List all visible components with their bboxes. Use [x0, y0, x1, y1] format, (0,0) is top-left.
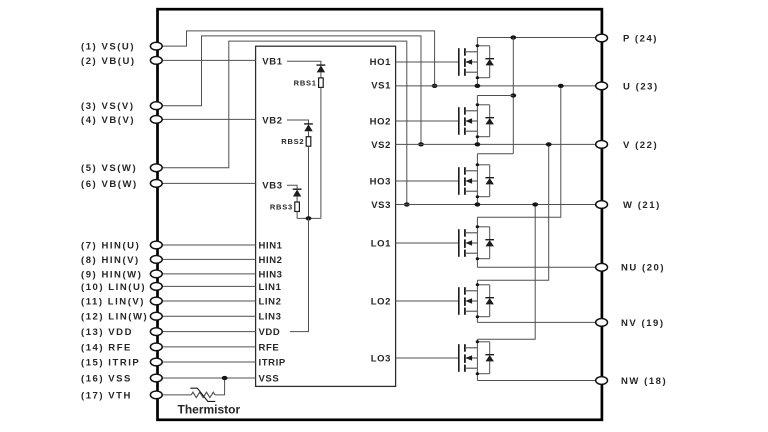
svg-text:(11) LIN(V): (11) LIN(V) — [81, 296, 145, 307]
pin 15 ITRIP (terminal ellipse + label) — [81, 357, 162, 368]
wire U1 VB1 stub to bootstrap diode DBS1 — [287, 61, 321, 65]
wire U1 HO1 to Q1 gate — [396, 61, 459, 63]
pin 2 VB(U) (terminal ellipse + label) — [81, 56, 162, 67]
body diode D6 of Q6 — [477, 342, 494, 374]
svg-text:(9) HIN(W): (9) HIN(W) — [81, 269, 142, 280]
wire RBS2 to bootstrap supply node — [308, 146, 310, 218]
svg-text:(7) HIN(U): (7) HIN(U) — [81, 240, 140, 251]
svg-text:RBS3: RBS3 — [270, 203, 293, 212]
body diode D1 of Q1 — [477, 46, 494, 78]
svg-text:VB2: VB2 — [262, 115, 282, 126]
wire pin 4 VB(V) to U1 — [162, 118, 255, 120]
pin U (23) (terminal ellipse + label) — [596, 81, 659, 92]
wire Q5 drain link to V net — [477, 144, 548, 280]
wire bootstrap supply bus — [297, 217, 321, 219]
wire pin 12 LIN(W) to U1 — [162, 315, 255, 317]
svg-text:Thermistor: Thermistor — [178, 402, 241, 416]
junction Q6 drain on W net — [532, 202, 538, 206]
svg-text:VB1: VB1 — [262, 57, 282, 68]
wire pin 2 VB(U) to U1 — [162, 59, 255, 61]
svg-text:LIN1: LIN1 — [259, 282, 282, 293]
junction D2 anode tap — [476, 135, 479, 138]
wire Q3 drain-source spine (P rail to W net) — [476, 154, 478, 205]
pin 16 VSS (terminal ellipse + label) — [81, 373, 162, 384]
wire RBS3 to bootstrap supply node — [296, 212, 298, 219]
svg-text:(2) VB(U): (2) VB(U) — [81, 56, 136, 67]
transistor Q6 (N-MOSFET) — [459, 344, 478, 372]
wire V net (U1 VS2 to pin V 22) — [396, 143, 602, 145]
svg-text:RFE: RFE — [259, 342, 280, 353]
svg-text:HO2: HO2 — [370, 116, 391, 127]
wire pin 13 VDD to U1 — [162, 331, 255, 333]
svg-text:(13) VDD: (13) VDD — [81, 327, 133, 338]
resistor RBS3 — [295, 202, 300, 212]
junction D5 anode tap — [476, 315, 479, 318]
pin P (24) (terminal ellipse + label) — [596, 33, 658, 44]
junction D6 cathode tap — [476, 340, 479, 343]
svg-text:VS1: VS1 — [371, 81, 391, 92]
svg-text:LIN3: LIN3 — [259, 312, 282, 323]
pin V (22) (terminal ellipse + label) — [596, 140, 658, 151]
junction Q4 drain on U net — [558, 84, 564, 88]
wire U1 LO1 to Q4 gate — [396, 242, 459, 244]
svg-text:(10) LIN(U): (10) LIN(U) — [81, 282, 146, 293]
wire pin 8 HIN(V) to U1 — [162, 258, 255, 260]
body diode D2 of Q2 — [477, 105, 494, 137]
wire Q2 drain rail — [477, 95, 513, 97]
transistor Q1 (N-MOSFET) — [459, 48, 478, 76]
wire U1 HO2 to Q2 gate — [396, 120, 459, 122]
wire P rail (Q1 drain to pin P 24) — [477, 37, 601, 39]
svg-text:HIN1: HIN1 — [259, 240, 283, 251]
svg-text:NV (19): NV (19) — [621, 318, 665, 329]
svg-text:(4) VB(V): (4) VB(V) — [81, 115, 135, 126]
junction Q5 drain on V net — [546, 142, 552, 146]
wire U1 LO3 to Q6 gate — [396, 357, 459, 359]
wire U1 HO3 to Q3 gate — [396, 180, 459, 182]
transistor Q4 (N-MOSFET) — [459, 229, 478, 257]
svg-text:HIN2: HIN2 — [259, 255, 283, 266]
wire Q3 drain rail — [477, 153, 513, 155]
wire pin 15 ITRIP to U1 — [162, 361, 255, 363]
pin 3 VS(V) (terminal ellipse + label) — [81, 101, 162, 112]
module outline (IPM package boundary) — [158, 9, 602, 420]
pin 12 LIN(W) (terminal ellipse + label) — [81, 312, 162, 323]
wire RT1 to VSS net — [215, 378, 225, 395]
pin NV (19) (terminal ellipse + label) — [596, 318, 665, 329]
wire pin 10 LIN(U) to U1 — [162, 285, 255, 287]
bootstrap diode DBS3 — [293, 189, 302, 202]
svg-text:RBS2: RBS2 — [281, 137, 304, 146]
svg-text:NU (20): NU (20) — [621, 263, 665, 274]
wire Q2 drain-source spine (P rail to V net) — [476, 96, 478, 145]
svg-text:U (23): U (23) — [623, 81, 659, 92]
pin 6 VB(W) (terminal ellipse + label) — [81, 179, 162, 190]
junction D3 anode tap — [476, 195, 479, 198]
wire U1 VB3 stub to bootstrap diode DBS3 — [287, 185, 297, 189]
svg-text:VSS: VSS — [259, 373, 280, 384]
wire pin 16 VSS to U1 — [162, 377, 255, 379]
junction P rail branch — [510, 35, 516, 39]
svg-text:P (24): P (24) — [623, 33, 658, 44]
svg-text:VS2: VS2 — [371, 140, 391, 151]
wire W net (U1 VS3 to pin W 21) — [396, 204, 602, 206]
wire Q4 drain-source spine (U net to NU net) — [476, 217, 478, 267]
svg-text:(17) VTH: (17) VTH — [81, 390, 132, 401]
svg-text:W (21): W (21) — [623, 200, 661, 211]
body diode D5 of Q5 — [477, 285, 494, 317]
transistor Q2 (N-MOSFET) — [459, 107, 478, 135]
svg-text:VDD: VDD — [259, 327, 281, 338]
svg-text:(6) VB(W): (6) VB(W) — [81, 179, 138, 190]
pin 7 HIN(U) (terminal ellipse + label) — [81, 240, 162, 251]
wire P rail drop to Q2/Q3 drains — [512, 38, 514, 154]
junction Q3 source on W net — [475, 202, 481, 206]
pin 1 VS(U) (terminal ellipse + label) — [81, 42, 162, 53]
junction D4 cathode tap — [476, 225, 479, 228]
wire NV net (Q5 source to pin NV 19) — [477, 321, 601, 323]
wire Q1 drain-source spine (P rail to U net) — [476, 38, 478, 86]
body diode D3 of Q3 — [477, 165, 494, 197]
resistor RBS1 — [319, 78, 324, 88]
wire pin 11 LIN(V) to U1 — [162, 300, 255, 302]
wire RBS1 to bootstrap supply node — [320, 87, 322, 218]
svg-text:NW (18): NW (18) — [621, 376, 667, 387]
junction D2 cathode tap — [476, 103, 479, 106]
wire VS(U) net: pin 1 to U node — [162, 31, 434, 86]
wire U net (U1 VS1 to pin U 23) — [396, 85, 602, 87]
transistor Q3 (N-MOSFET) — [459, 167, 478, 195]
svg-text:LIN2: LIN2 — [259, 296, 282, 307]
junction D4 anode tap — [476, 257, 479, 260]
wire pin 17 VTH to thermistor RT1 — [162, 394, 191, 396]
wire pin 9 HIN(W) to U1 — [162, 273, 255, 275]
junction P rail at Q2 drain — [510, 93, 516, 97]
svg-text:ITRIP: ITRIP — [259, 357, 286, 368]
body diode D4 of Q4 — [477, 227, 494, 259]
svg-text:(5) VS(W): (5) VS(W) — [81, 163, 137, 174]
svg-text:HIN3: HIN3 — [259, 269, 283, 280]
wire NU net (Q4 source to pin NU 20) — [477, 266, 601, 268]
svg-text:RBS1: RBS1 — [294, 78, 317, 87]
junction Q2 source on V net — [475, 142, 481, 146]
junction D5 cathode tap — [476, 283, 479, 286]
pin 5 VS(W) (terminal ellipse + label) — [81, 163, 162, 174]
pin 10 LIN(U) (terminal ellipse + label) — [81, 282, 162, 293]
junction VS(W)/W node — [404, 202, 410, 206]
svg-text:(3) VS(V): (3) VS(V) — [81, 101, 135, 112]
svg-text:(16) VSS: (16) VSS — [81, 373, 132, 384]
thermistor RT1 — [190, 388, 215, 401]
svg-text:LO3: LO3 — [371, 353, 391, 364]
wire Q5 drain-source spine (V net to NV net) — [476, 280, 478, 322]
pin 17 VTH (terminal ellipse + label) — [81, 390, 162, 401]
svg-text:V (22): V (22) — [623, 140, 658, 151]
wire U1 VB2 stub to bootstrap diode DBS2 — [287, 120, 309, 124]
wire pin 6 VB(W) to U1 — [162, 182, 255, 184]
pin 9 HIN(W) (terminal ellipse + label) — [81, 269, 162, 280]
junction D6 anode tap — [476, 372, 479, 375]
svg-text:(1) VS(U): (1) VS(U) — [81, 42, 135, 53]
junction Q1 source on U net — [475, 84, 481, 88]
pin 8 HIN(V) (terminal ellipse + label) — [81, 255, 162, 266]
junction D1 cathode tap — [476, 44, 479, 47]
pin 13 VDD (terminal ellipse + label) — [81, 327, 162, 338]
svg-text:VS3: VS3 — [371, 200, 391, 211]
pin 11 LIN(V) (terminal ellipse + label) — [81, 296, 162, 307]
pin 4 VB(V) (terminal ellipse + label) — [81, 115, 162, 126]
svg-text:HO3: HO3 — [370, 176, 391, 187]
wire pin 7 HIN(U) to U1 — [162, 244, 255, 246]
wire NW net (Q6 source to pin NW 18) — [477, 380, 601, 382]
wire U1 LO2 to Q5 gate — [396, 300, 459, 302]
svg-text:LO2: LO2 — [371, 296, 391, 307]
junction D1 anode tap — [476, 76, 479, 79]
junction bootstrap supply node — [306, 216, 312, 220]
wire bootstrap supply node to U1 VDD — [290, 218, 309, 331]
wire Q4 drain link to U net — [477, 86, 560, 217]
svg-text:(12) LIN(W): (12) LIN(W) — [81, 312, 148, 323]
resistor RBS2 — [306, 137, 311, 147]
transistor Q5 (N-MOSFET) — [459, 287, 478, 315]
svg-text:(15) ITRIP: (15) ITRIP — [81, 357, 140, 368]
pin NU (20) (terminal ellipse + label) — [596, 263, 665, 274]
svg-text:LO1: LO1 — [371, 238, 391, 249]
svg-text:VB3: VB3 — [262, 181, 282, 192]
wire VS(W) net: pin 5 to W node — [162, 41, 407, 204]
svg-text:(14) RFE: (14) RFE — [81, 342, 132, 353]
junction RT1/VSS net — [222, 376, 228, 380]
svg-text:HO1: HO1 — [370, 57, 391, 68]
svg-text:(8) HIN(V): (8) HIN(V) — [81, 255, 140, 266]
bootstrap diode DBS1 — [317, 65, 326, 78]
junction VS(U)/U node — [432, 84, 438, 88]
wire VS(V) net: pin 3 to V node — [162, 36, 421, 144]
junction D3 cathode tap — [476, 163, 479, 166]
wire Q6 drain link to W net — [477, 205, 535, 340]
junction VS(V)/V node — [418, 142, 424, 146]
bootstrap diode DBS2 — [304, 124, 313, 137]
pin 14 RFE (terminal ellipse + label) — [81, 342, 162, 353]
pin W (21) (terminal ellipse + label) — [596, 200, 661, 211]
wire Q6 drain-source spine (W net to NW net) — [476, 339, 478, 380]
gate driver IC U1 (box) — [256, 46, 396, 386]
wire pin 14 RFE to U1 — [162, 346, 255, 348]
pin NW (18) (terminal ellipse + label) — [596, 376, 668, 387]
